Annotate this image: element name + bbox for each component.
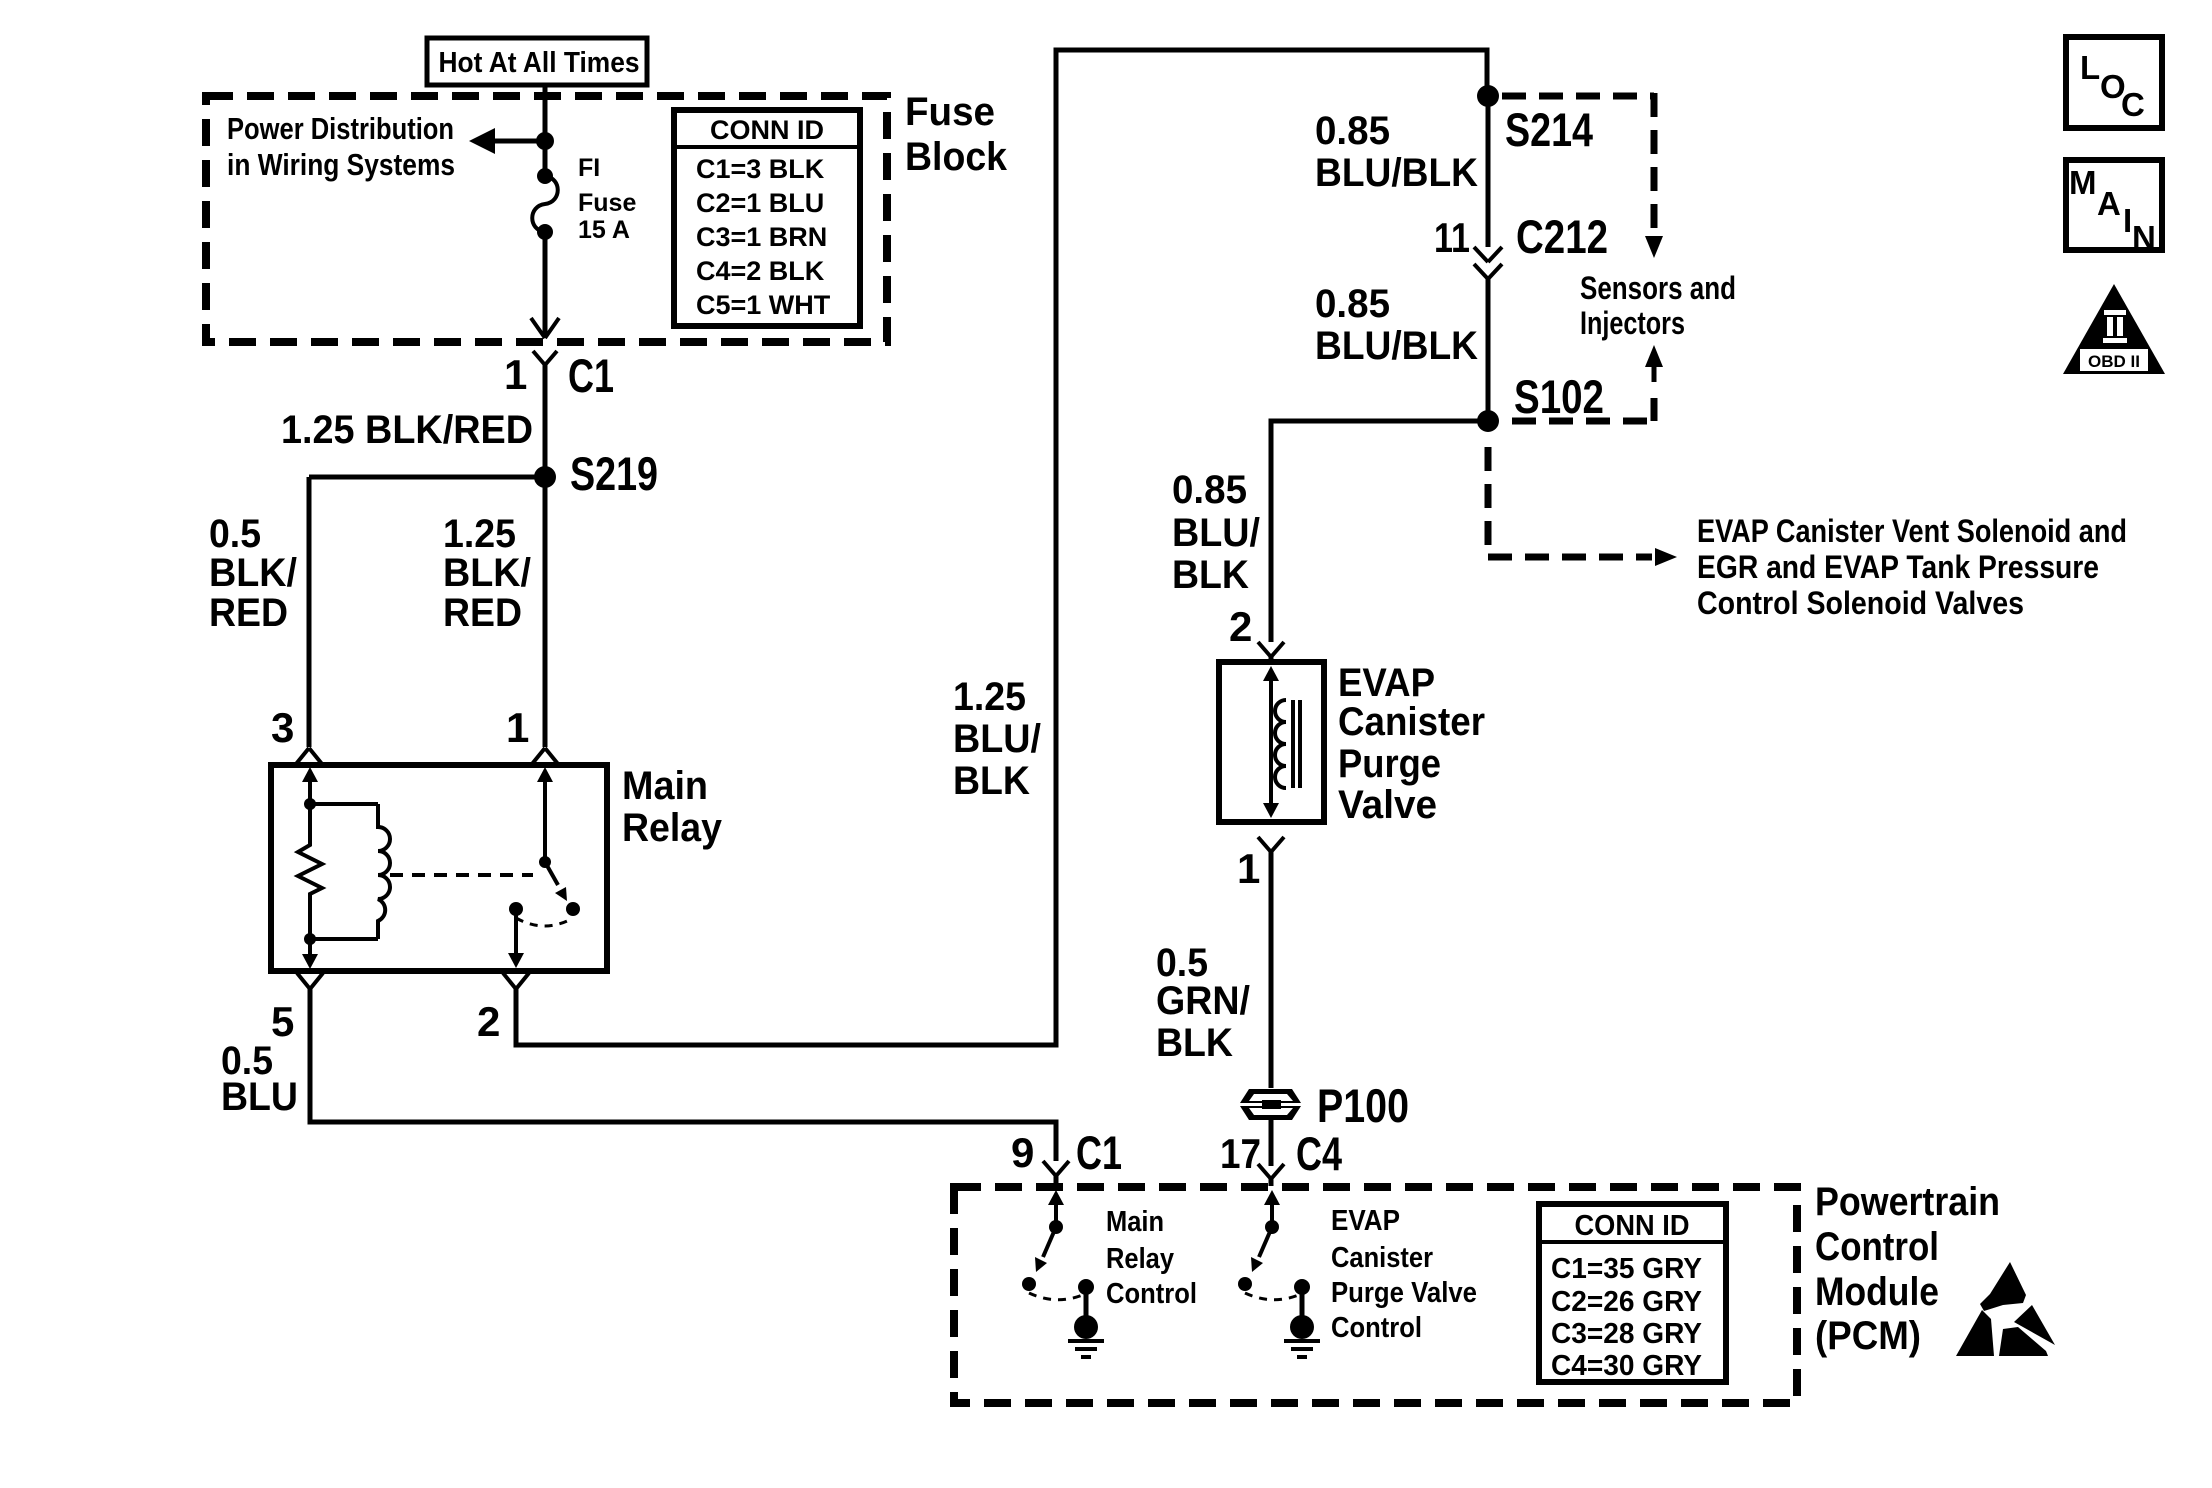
svg-text:17: 17 (1220, 1130, 1261, 1177)
connector pin 9 C1 of PCM (1011, 1126, 1122, 1186)
label: Main Relay (622, 764, 723, 850)
connector 11 C212 (1434, 210, 1608, 279)
svg-text:A: A (2097, 185, 2121, 222)
svg-text:0.85: 0.85 (1315, 109, 1390, 153)
relay switch contacts (509, 902, 580, 926)
relay dashed actuation link (390, 873, 533, 877)
wire: C1 pin down to S219 and relay pin 1 (543, 365, 548, 747)
svg-text:Power Distribution: Power Distribution (227, 111, 454, 146)
connector pin 1 of EVAP valve (1237, 837, 1284, 892)
svg-text:1.25 BLK/RED: 1.25 BLK/RED (281, 408, 533, 452)
label: 0.5 BLK/RED (209, 512, 297, 635)
wire: relay pin 2 up-and-over (1.25 BLU/BLK) (516, 50, 1487, 1045)
svg-text:C4: C4 (1296, 1127, 1342, 1180)
svg-text:C4=2 BLK: C4=2 BLK (696, 256, 825, 286)
svg-text:C1=35 GRY: C1=35 GRY (1551, 1253, 1702, 1285)
svg-text:GRN/: GRN/ (1156, 979, 1250, 1023)
svg-text:S219: S219 (570, 447, 658, 500)
svg-text:Main: Main (1106, 1206, 1164, 1238)
svg-text:Purge Valve: Purge Valve (1331, 1277, 1477, 1309)
svg-text:BLU: BLU (221, 1075, 298, 1119)
wire: left branch down to relay pin 3 (307, 477, 312, 747)
relay internal node top (304, 798, 316, 810)
pin 2 of relay (477, 973, 529, 1045)
svg-text:Control Solenoid Valves: Control Solenoid Valves (1697, 585, 2024, 621)
svg-text:CONN ID: CONN ID (1575, 1210, 1690, 1242)
svg-text:Relay: Relay (622, 806, 723, 850)
symbol: OBD II triangle (2063, 284, 2165, 374)
svg-text:RED: RED (443, 591, 522, 635)
svg-text:BLK: BLK (1156, 1021, 1233, 1065)
svg-text:1: 1 (1237, 845, 1260, 892)
svg-text:S214: S214 (1505, 103, 1593, 156)
svg-text:2: 2 (1229, 603, 1252, 650)
svg-text:BLU/: BLU/ (953, 717, 1041, 761)
svg-text:1.25: 1.25 (953, 675, 1026, 719)
label: 0.85 BLU/BLK (upper) (1315, 109, 1478, 195)
svg-text:C1=3 BLK: C1=3 BLK (696, 154, 825, 184)
relay internal node bottom (304, 933, 316, 945)
svg-text:0.85: 0.85 (1315, 282, 1390, 326)
symbol: MAIN box (2066, 160, 2162, 256)
dashed harness: S214 to sensors and injectors (1502, 93, 1663, 258)
svg-text:Purge: Purge (1338, 742, 1441, 786)
label: 0.5 GRN/BLK (1156, 941, 1250, 1065)
svg-text:Main: Main (622, 764, 708, 808)
wire: C212 down to S102 (1486, 279, 1491, 421)
grommet P100 (1240, 1079, 1409, 1132)
relay coil L1 (310, 804, 390, 939)
symbol: ESD sensitive device (1956, 1262, 2055, 1356)
dashed harness: S102 up-arrow branch (1512, 345, 1663, 421)
svg-text:Fuse: Fuse (578, 189, 636, 217)
svg-text:Powertrain: Powertrain (1815, 1180, 2000, 1224)
svg-text:RED: RED (209, 591, 288, 635)
pin 5 of relay (271, 973, 323, 1045)
svg-text:EVAP: EVAP (1338, 661, 1435, 705)
PCM dashed box (954, 1187, 1797, 1403)
PCM driver: EVAP Canister Purge Valve Control switch (1238, 1190, 1301, 1300)
fuse block dashed box (206, 96, 887, 342)
connector pin 17 C4 of PCM (1220, 1127, 1342, 1186)
svg-text:BLU/BLK: BLU/BLK (1315, 151, 1478, 195)
svg-text:FI: FI (578, 154, 600, 182)
fuse FI 15A symbol (532, 168, 558, 240)
svg-text:Control: Control (1815, 1225, 1939, 1269)
svg-text:BLK/: BLK/ (443, 551, 531, 595)
svg-text:C1: C1 (1076, 1126, 1122, 1179)
relay coil-side bottom arrow (pin 5 inside) (302, 939, 318, 969)
relay switch common (pin 1 inside) (537, 767, 553, 868)
svg-text:(PCM): (PCM) (1815, 1314, 1921, 1358)
relay: Main Relay box (271, 765, 607, 971)
ground (Main Relay Control) (1068, 1279, 1104, 1357)
EVAP Canister Purge Valve box (1219, 662, 1324, 822)
wire: hot feed into fuse block (543, 85, 548, 141)
relay output arrow to pin 2 (508, 909, 524, 968)
svg-text:BLU/: BLU/ (1172, 511, 1260, 555)
PCM driver: Main Relay Control switch (1022, 1190, 1085, 1300)
svg-text:Valve: Valve (1338, 783, 1437, 827)
svg-text:Sensors and: Sensors and (1580, 270, 1736, 306)
wire: P100 to PCM pin 17 (1269, 1118, 1274, 1166)
svg-text:1: 1 (504, 351, 527, 398)
symbol: LOC box (2066, 37, 2162, 128)
svg-text:Control: Control (1106, 1278, 1197, 1310)
label: Power Distribution in Wiring Systems (227, 111, 455, 182)
svg-text:0.85: 0.85 (1172, 468, 1247, 512)
svg-text:Control: Control (1331, 1312, 1422, 1344)
wire: S214 down to C212 (1486, 96, 1491, 247)
EVAP valve solenoid coil (1275, 700, 1300, 788)
label: Sensors and Injectors (1580, 270, 1736, 341)
node S219 (534, 447, 658, 500)
wire: EVAP pin 1 down to P100 (0.5 GRN/BLK) (1269, 852, 1274, 1088)
svg-text:C1: C1 (568, 349, 614, 402)
relay coil-side top arrow (pin 3 inside) (302, 767, 318, 804)
label: Powertrain Control Module (PCM) (1815, 1180, 2000, 1358)
label: 0.85 BLU/BLK (lower) (1315, 282, 1478, 368)
table: fuse block CONN ID (674, 110, 860, 326)
svg-text:P100: P100 (1317, 1079, 1409, 1132)
svg-text:C: C (2121, 86, 2145, 123)
box: Hot At All Times (427, 38, 647, 85)
svg-text:11: 11 (1434, 214, 1470, 261)
svg-text:0.5: 0.5 (209, 512, 261, 556)
svg-text:Canister: Canister (1331, 1242, 1433, 1274)
svg-text:M: M (2069, 164, 2097, 201)
svg-text:I: I (2123, 202, 2132, 239)
label: 0.85 BLU/BLK (EVAP feed) (1172, 468, 1260, 597)
svg-text:BLK: BLK (1172, 553, 1249, 597)
dashed harness: S102 to EVAP canister vent solenoid (1488, 447, 1677, 566)
svg-text:1.25: 1.25 (443, 512, 516, 556)
wire: relay pin 5 to PCM pin 9 (0.5 BLU) (310, 989, 1056, 1161)
svg-text:9: 9 (1011, 1129, 1034, 1176)
wire: S219 branch left (309, 475, 545, 480)
wire: junction to fuse (543, 141, 548, 174)
node: junction to power distribution (536, 132, 554, 150)
svg-text:N: N (2132, 219, 2156, 256)
svg-text:2: 2 (477, 998, 500, 1045)
relay switch arm with arrow (545, 862, 567, 901)
svg-text:5: 5 (271, 998, 294, 1045)
table: PCM CONN ID (1539, 1204, 1726, 1382)
label: Fuse Block (905, 90, 1008, 179)
wire: fuse down to fuse block edge with arrow (531, 232, 559, 338)
svg-text:C212: C212 (1516, 210, 1608, 263)
wire: S102 branch to EVAP purge valve (1271, 421, 1488, 642)
node S102 (1477, 370, 1604, 432)
svg-text:15 A: 15 A (578, 216, 630, 244)
svg-text:C4=30 GRY: C4=30 GRY (1551, 1350, 1702, 1382)
svg-text:in Wiring Systems: in Wiring Systems (227, 147, 455, 182)
svg-text:Fuse: Fuse (905, 90, 995, 134)
svg-text:BLK/: BLK/ (209, 551, 297, 595)
svg-text:Hot At All Times: Hot At All Times (439, 47, 640, 79)
EVAP valve internal double arrow (1263, 666, 1279, 818)
label: EVAP Canister Purge Valve (1338, 661, 1485, 827)
svg-text:Injectors: Injectors (1580, 305, 1685, 341)
ground (EVAP Canister Purge Valve Control) (1284, 1279, 1320, 1357)
wire: branch to Power Distribution with left arrow (469, 128, 545, 154)
node S214 (1477, 85, 1593, 156)
svg-text:EGR and EVAP Tank Pressure: EGR and EVAP Tank Pressure (1697, 549, 2099, 585)
svg-text:C3=1 BRN: C3=1 BRN (696, 222, 827, 252)
label: EVAP Canister Vent Solenoid note (1697, 513, 2127, 621)
label: FI Fuse 15 A (578, 154, 636, 244)
svg-text:OBD II: OBD II (2088, 352, 2140, 371)
svg-text:BLU/BLK: BLU/BLK (1315, 324, 1478, 368)
svg-text:EVAP: EVAP (1331, 1205, 1400, 1237)
resistor (relay coil suppression) (298, 804, 322, 939)
svg-text:3: 3 (271, 704, 294, 751)
svg-text:EVAP Canister Vent Solenoid an: EVAP Canister Vent Solenoid and (1697, 513, 2127, 549)
svg-text:L: L (2080, 49, 2100, 86)
svg-text:C2=26 GRY: C2=26 GRY (1551, 1286, 1702, 1318)
label: EVAP Canister Purge Valve Control (1331, 1205, 1477, 1344)
svg-text:Canister: Canister (1338, 700, 1485, 744)
svg-text:BLK: BLK (953, 759, 1030, 803)
svg-text:1: 1 (506, 704, 529, 751)
svg-text:Block: Block (905, 135, 1008, 179)
svg-text:C3=28 GRY: C3=28 GRY (1551, 1318, 1702, 1350)
label: 0.5 BLU (221, 1039, 298, 1119)
svg-text:S102: S102 (1514, 370, 1604, 423)
svg-text:C5=1 WHT: C5=1 WHT (696, 290, 831, 320)
label: 1.25 BLK/RED (right branch) (443, 512, 531, 635)
label: Main Relay Control (1106, 1206, 1197, 1310)
connector pin 1 C1 of fuse block (504, 349, 614, 402)
connector pin 2 of EVAP valve (1229, 603, 1284, 662)
pin 1 of relay (506, 704, 558, 764)
label: 1.25 BLU/BLK (953, 675, 1041, 803)
svg-text:Module: Module (1815, 1270, 1939, 1314)
svg-text:CONN ID: CONN ID (710, 115, 824, 145)
svg-text:C2=1 BLU: C2=1 BLU (696, 188, 824, 218)
pin 3 of relay (271, 704, 322, 764)
svg-text:Relay: Relay (1106, 1243, 1174, 1275)
